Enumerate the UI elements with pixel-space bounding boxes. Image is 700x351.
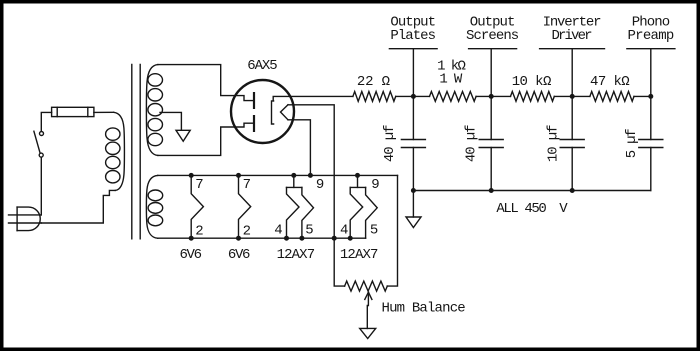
svg-text:10 kΩ: 10 kΩ <box>512 74 552 90</box>
svg-text:ALL 450 V: ALL 450 V <box>496 201 568 217</box>
wire plug to transformer primary bottom <box>41 190 115 223</box>
resistor 22 ohm <box>353 92 396 102</box>
wire <box>634 95 651 97</box>
svg-text:9: 9 <box>371 177 379 193</box>
heater lead lower <box>288 120 310 176</box>
wiper arrow <box>365 292 372 328</box>
svg-text:Screens: Screens <box>466 28 519 44</box>
svg-text:12AX7: 12AX7 <box>340 247 379 263</box>
filter ground bus <box>413 190 650 192</box>
junction dot (310.4,175.4) <box>308 173 313 178</box>
junction dot (191.2,175.4) <box>189 173 194 178</box>
transformer core <box>132 64 140 238</box>
wire tap Output Screens <box>490 49 492 97</box>
svg-text:2: 2 <box>243 224 251 240</box>
heater filament chevron <box>281 105 289 120</box>
svg-text:2: 2 <box>195 224 203 240</box>
junction dot (572.2,190.5) <box>570 188 575 193</box>
capacitor C2 40 µf <box>479 96 503 190</box>
junction dot (491.2,96.4) <box>489 94 494 99</box>
wire tap Inverter Driver <box>571 49 573 97</box>
cathode output wire <box>273 96 353 101</box>
wire tap Phono Preamp <box>650 49 652 97</box>
junction dot (293.8,175.4) <box>291 173 296 178</box>
svg-text:5: 5 <box>305 222 313 238</box>
node Inverter Driver T-bar <box>540 48 605 50</box>
plate 1 <box>253 92 255 109</box>
center tap wire <box>160 112 181 130</box>
svg-text:40 µf: 40 µf <box>463 125 479 163</box>
junction dot (350.2,238.2) <box>348 236 353 241</box>
capacitor C3 10 µf <box>560 96 584 190</box>
svg-text:6AX5: 6AX5 <box>247 58 278 74</box>
svg-text:Driver: Driver <box>552 28 593 44</box>
transformer heater secondary winding <box>146 175 162 238</box>
junction dot (357.5,175.4) <box>355 173 360 178</box>
node Phono Preamp T-bar <box>627 48 675 50</box>
wire <box>554 95 590 97</box>
junction dot (413.4,96.4) <box>411 94 416 99</box>
rectifier tube U1 envelope <box>231 80 294 143</box>
wire plug to switch <box>40 157 42 215</box>
ground symbol hum balance <box>360 328 376 338</box>
node Output Screens T-bar <box>469 48 517 50</box>
svg-text:5: 5 <box>370 222 378 238</box>
wire switch to fuse <box>41 112 51 131</box>
svg-text:40 µf: 40 µf <box>382 125 398 163</box>
transformer HV secondary winding <box>146 65 162 156</box>
svg-text:4: 4 <box>274 222 282 238</box>
svg-text:Hum Balance: Hum Balance <box>382 300 466 316</box>
HV secondary top lead to plate <box>158 65 254 101</box>
svg-text:10 µf: 10 µf <box>545 125 561 163</box>
svg-text:6V6: 6V6 <box>180 247 203 263</box>
cathode <box>272 101 274 124</box>
switch S1 <box>34 131 44 157</box>
wire fuse to primary top <box>94 111 114 113</box>
AC plug P1 <box>9 207 42 231</box>
junction dot (238.5,175.4) <box>236 173 241 178</box>
junction dot (286.5,238.2) <box>284 236 289 241</box>
heater 12AX7 #1 <box>287 175 314 238</box>
svg-text:1 W: 1 W <box>439 72 462 88</box>
capacitor C1 40 µf <box>401 96 425 190</box>
svg-text:9: 9 <box>316 177 324 193</box>
resistor 1 kohm 1 W <box>430 92 477 102</box>
wire top bus to hum pot right <box>387 175 397 286</box>
center tap ground <box>176 130 190 141</box>
svg-text:7: 7 <box>243 177 251 193</box>
heater 6V6 #2 <box>239 175 251 238</box>
svg-text:5 µf: 5 µf <box>624 128 640 158</box>
resistor 10 kohm <box>511 92 555 102</box>
junction dot (238.5,238.2) <box>236 236 241 241</box>
heater 12AX7 #2 <box>350 175 377 238</box>
junction dot (413.4,190.5) <box>411 188 416 193</box>
resistor 47 kohm <box>590 92 634 102</box>
svg-text:4: 4 <box>340 222 348 238</box>
junction dot (491.2,190.5) <box>489 188 494 193</box>
heater bus bottom <box>158 237 366 239</box>
junction dot (572.2,96.4) <box>570 94 575 99</box>
svg-text:47 kΩ: 47 kΩ <box>590 74 630 90</box>
fuse F1 <box>52 107 94 116</box>
wire <box>396 95 430 97</box>
ground symbol filter <box>406 217 421 228</box>
potentiometer hum balance <box>345 281 388 291</box>
svg-text:12AX7: 12AX7 <box>277 247 316 263</box>
plate 2 <box>253 115 255 132</box>
junction dot (650.8,96.4) <box>648 94 653 99</box>
wire <box>476 95 510 97</box>
svg-text:7: 7 <box>195 177 203 193</box>
junction dot (191.2,238.2) <box>189 236 194 241</box>
transformer T1 primary winding <box>106 112 125 190</box>
capacitor C4 5 µf <box>639 96 663 190</box>
HV secondary bottom lead to plate <box>158 123 254 155</box>
svg-text:22 Ω: 22 Ω <box>357 74 390 90</box>
heater 6V6 #1 <box>191 175 203 238</box>
svg-text:Preamp: Preamp <box>628 28 675 44</box>
svg-text:6V6: 6V6 <box>228 247 251 263</box>
heater bus top <box>158 174 398 176</box>
node Output Plates T-bar <box>389 48 437 50</box>
junction dot (301.9,238.2) <box>299 236 304 241</box>
ground stub <box>412 191 414 218</box>
heater lead upper <box>288 105 345 286</box>
junction dot (334.2,238.2) <box>332 236 337 241</box>
svg-text:Plates: Plates <box>390 28 436 44</box>
wire tap Output Plates <box>412 49 414 97</box>
